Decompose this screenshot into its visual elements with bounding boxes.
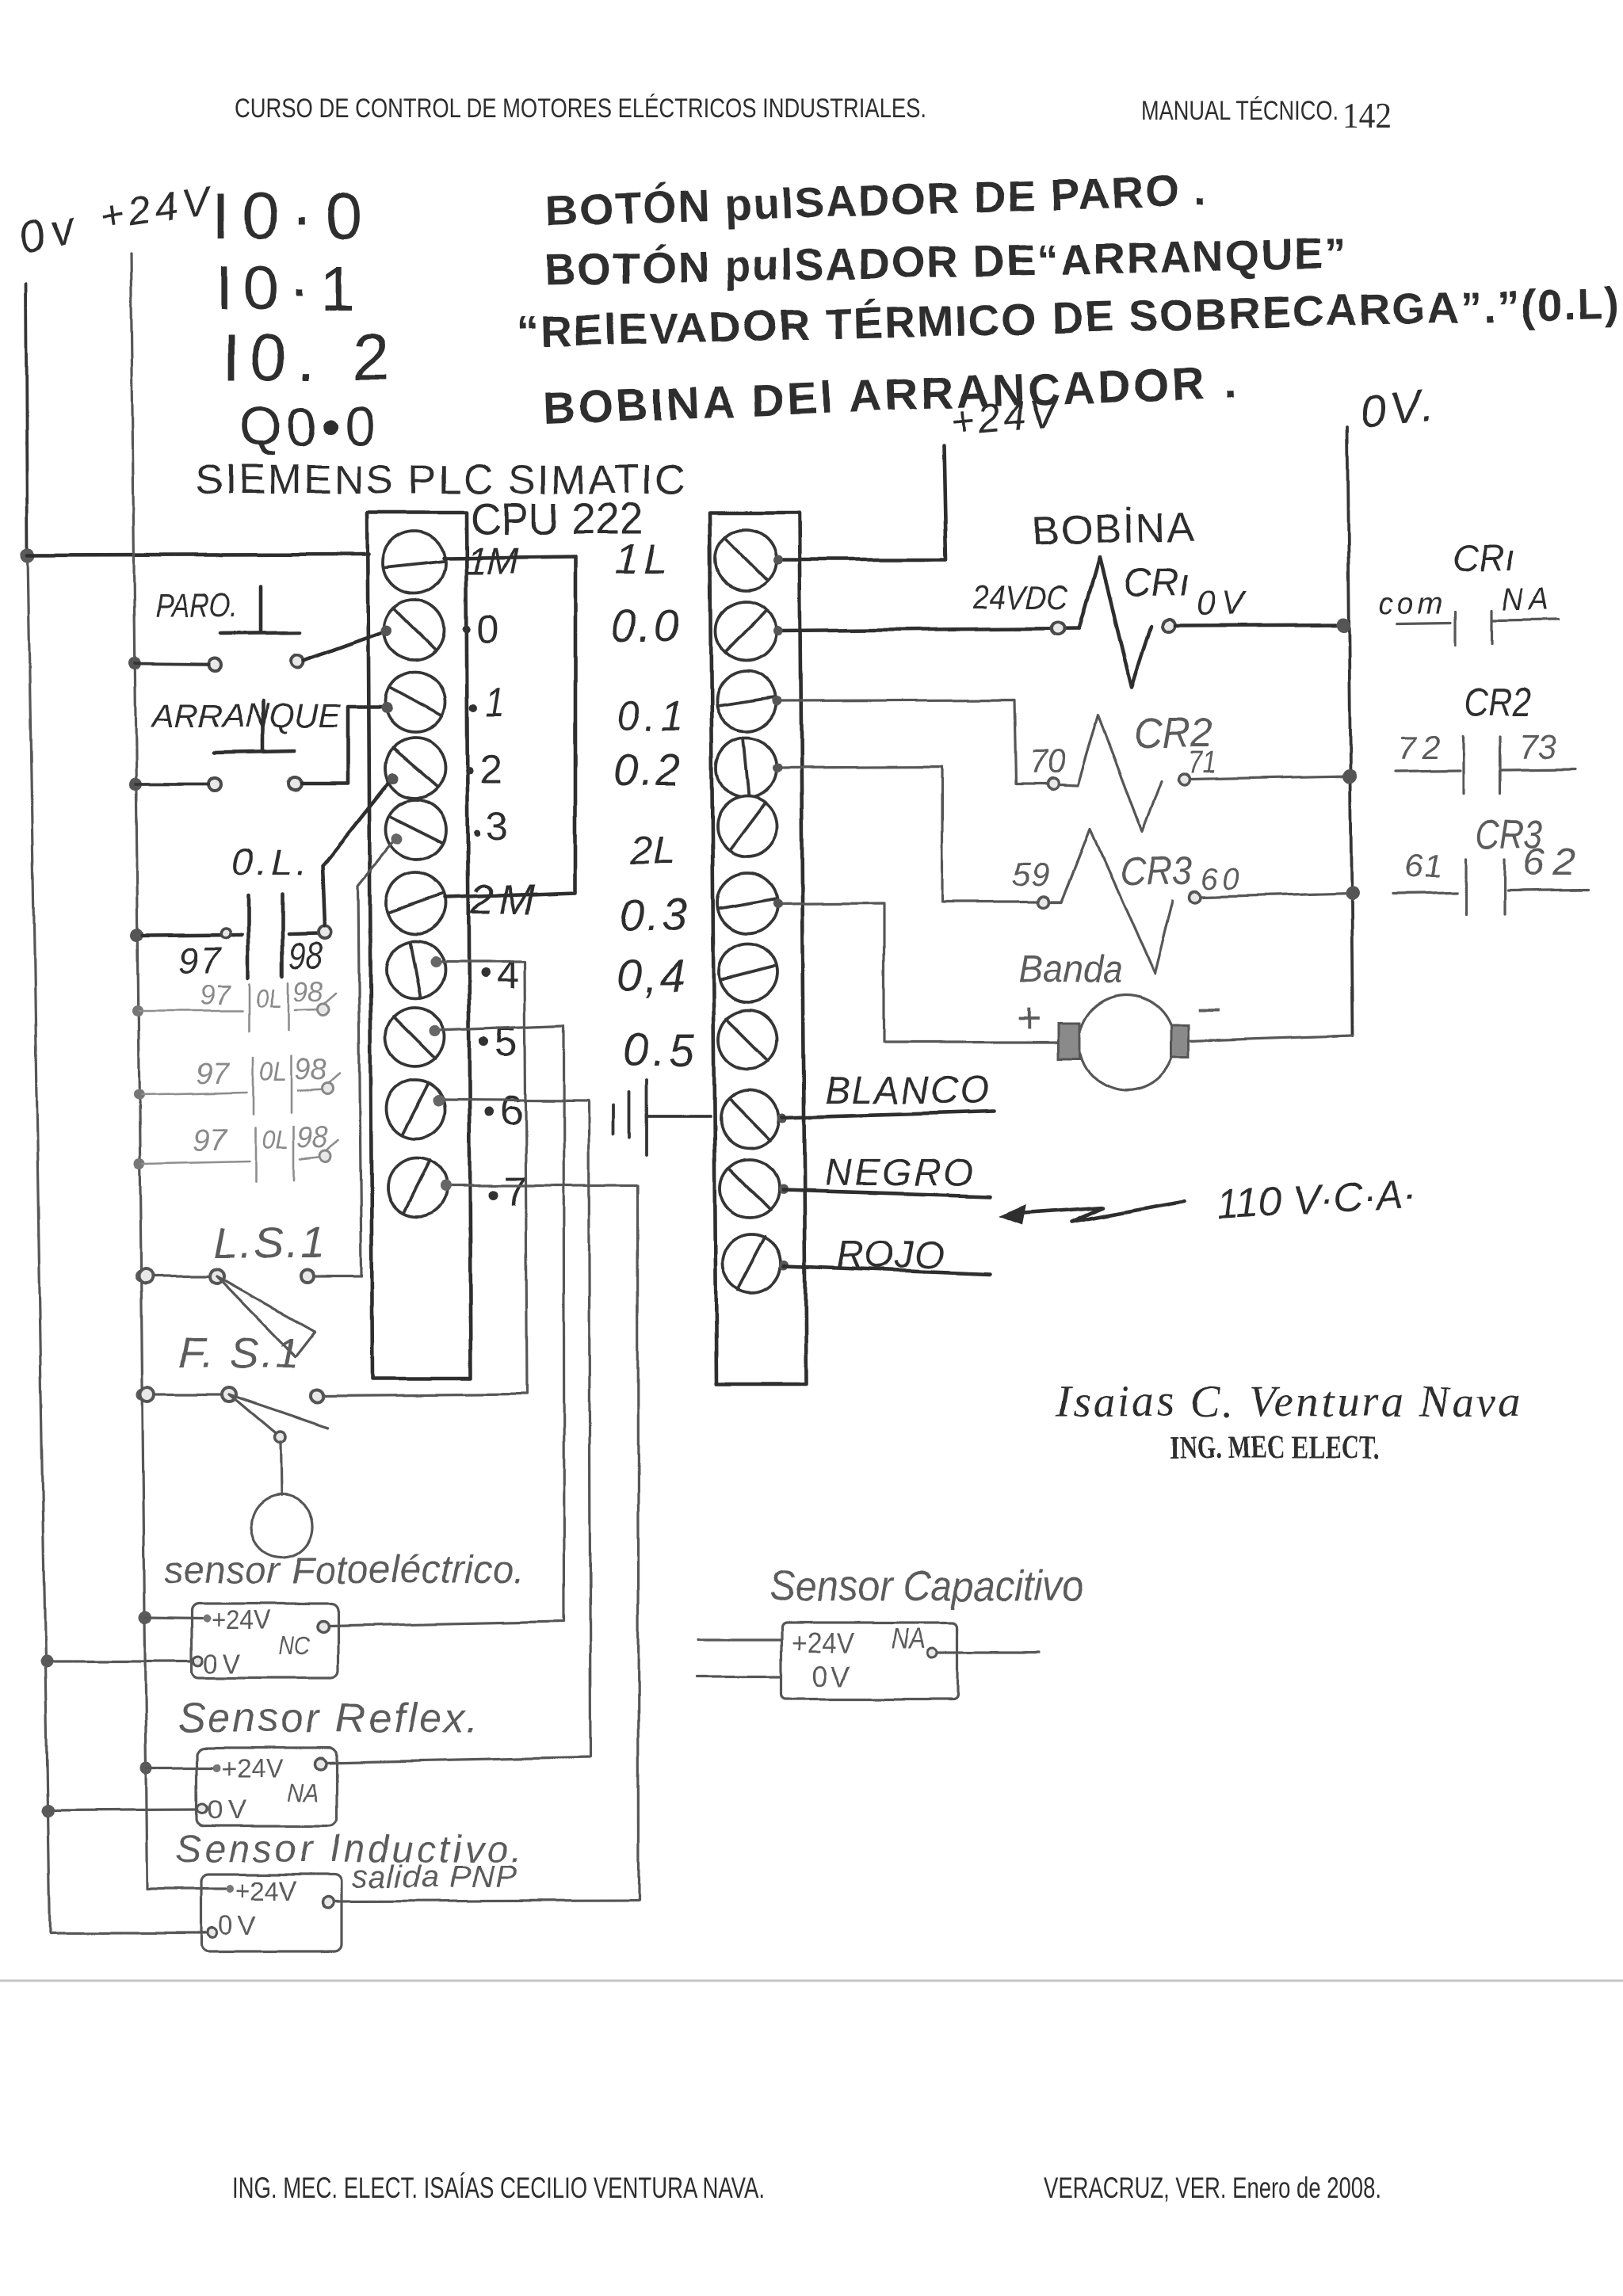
wire inductivo PNP up to I0.7 [334, 1186, 639, 1901]
common bar symbol (left of blanco) [613, 1080, 710, 1155]
svg-text:NA: NA [287, 1779, 319, 1807]
svg-text:3: 3 [486, 804, 508, 849]
svg-text:2L: 2L [630, 828, 675, 872]
svg-text:0.1: 0.1 [617, 694, 683, 740]
svg-text:CRı: CRı [1452, 537, 1515, 578]
svg-text:L.S.1: L.S.1 [214, 1219, 325, 1268]
svg-text:+24V: +24V [211, 1605, 271, 1635]
wire FS1 to I0.4 [323, 962, 527, 1396]
svg-text:+24V: +24V [791, 1627, 854, 1659]
input screw I0.3 [386, 799, 446, 860]
pushbutton PARO symbol [220, 586, 300, 633]
svg-text:NC: NC [279, 1631, 310, 1660]
wire blanco + label BLANCO [777, 1113, 787, 1123]
wire LS1 to I0.3 [314, 841, 394, 1276]
PLC output terminal strip (right) box [710, 513, 806, 1384]
svg-text:2: 2 [479, 746, 502, 792]
svg-text:97: 97 [200, 978, 233, 1011]
capacitivo lead +24V [697, 1638, 781, 1641]
svg-text:7: 7 [504, 1169, 527, 1215]
output screw 1L [716, 529, 776, 589]
wire 0V to terminal 1M [28, 555, 369, 555]
svg-text:4: 4 [496, 952, 519, 998]
capacitivo lead 0V [697, 1676, 781, 1678]
input screw I0.5 [386, 1008, 445, 1066]
aux contact CR3 [1392, 859, 1588, 915]
wire 0V to reflex box [48, 1810, 198, 1810]
sensor reflex box [197, 1748, 336, 1826]
pin label .1 [469, 704, 477, 711]
pin label .0 [463, 624, 471, 632]
sensor fotoelectrico box [191, 1604, 338, 1678]
relay coil CR2 [776, 700, 1046, 784]
pin label .3 [474, 830, 480, 837]
svg-text:71: 71 [1188, 747, 1216, 780]
input screw I0.0 [384, 600, 445, 660]
svg-text:2M: 2M [469, 876, 535, 924]
sensor inductivo box [201, 1875, 342, 1951]
sensor capacitivo box [781, 1623, 957, 1699]
wire OL1 to I0.2 [323, 780, 391, 926]
svg-text:97: 97 [196, 1058, 231, 1091]
wire foto NC up to I0.5 [328, 1025, 564, 1626]
output screw blanco [720, 1089, 779, 1148]
output screw Q0.2 [716, 738, 777, 798]
wire 0V rail end to inductivo box [50, 1932, 208, 1934]
wire +24V to reflex box [147, 1766, 212, 1768]
output screw Q0.4 [719, 944, 777, 1002]
output screw Q0.1 [716, 671, 777, 731]
input screw 1M [384, 532, 445, 593]
pin label .4 [480, 968, 490, 978]
wire Q0.3 to motor + [776, 902, 1060, 1043]
svg-text:+: + [1016, 995, 1041, 1043]
aux contact CR2 [1395, 737, 1575, 794]
svg-text:61: 61 [1404, 848, 1442, 885]
svg-text:98: 98 [295, 1053, 327, 1086]
svg-text:NEGRO: NEGRO [825, 1152, 974, 1194]
output screw 2L [717, 796, 777, 856]
svg-text:98: 98 [289, 935, 323, 976]
overload contact OL3 [141, 1056, 340, 1114]
float switch FS1 [140, 1387, 155, 1402]
svg-text:−: − [1197, 986, 1222, 1033]
wire rojo + label ROJO [780, 1261, 789, 1270]
input screw 2M [386, 873, 446, 933]
input screw I0.4 [386, 940, 445, 999]
svg-text:Sensor Capacitivo: Sensor Capacitivo [769, 1562, 1083, 1610]
svg-text:142: 142 [1342, 95, 1392, 135]
svg-text:98: 98 [293, 975, 323, 1008]
svg-text:0: 0 [477, 606, 499, 650]
svg-text:ROJO: ROJO [836, 1234, 944, 1276]
wire +24V to foto box [145, 1618, 201, 1619]
pin label .2 [465, 767, 473, 775]
svg-text:0,4: 0,4 [617, 952, 685, 1002]
svg-text:CR3: CR3 [1120, 849, 1193, 893]
wire motor - to 0V rail [1189, 1035, 1353, 1041]
svg-text:BOBİNA: BOBİNA [1031, 505, 1196, 555]
svg-text:0L: 0L [262, 1125, 288, 1155]
svg-text:Banda: Banda [1019, 947, 1122, 991]
svg-text:70: 70 [1029, 743, 1066, 780]
wire 0V to foto box [47, 1660, 193, 1662]
svg-text:0.5: 0.5 [623, 1024, 695, 1076]
svg-text:0L: 0L [257, 984, 282, 1014]
photo sensor lamp [281, 1442, 281, 1496]
overload contact OL2 [139, 982, 336, 1032]
svg-text:0.0: 0.0 [611, 601, 679, 652]
wire +24V to PARO [135, 663, 208, 664]
overload contact OL4 [143, 1126, 338, 1182]
svg-text:+24V: +24V [222, 1754, 282, 1784]
scan edge line [0, 1980, 1623, 1982]
svg-text:73: 73 [1519, 727, 1556, 765]
svg-text:PARO.: PARO. [155, 586, 238, 624]
svg-text:0V: 0V [812, 1660, 850, 1692]
svg-text:59: 59 [1012, 856, 1050, 893]
overload contact OL1 (97-98) [143, 895, 320, 978]
input screw I0.2 [385, 738, 445, 798]
input screw I0.1 [385, 672, 445, 732]
wire reflex NA up to I0.6 [326, 1099, 590, 1763]
1M-2M common bracket [444, 556, 575, 898]
svg-text:0.3: 0.3 [619, 890, 687, 940]
svg-text:CRı: CRı [1124, 560, 1189, 605]
svg-text:MANUAL TÉCNICO.: MANUAL TÉCNICO. [1141, 96, 1338, 126]
svg-text:+24V: +24V [949, 390, 1061, 444]
output screw negro [720, 1159, 779, 1218]
arrow to wires [1013, 1201, 1184, 1222]
output screw Q0.0 [716, 601, 776, 661]
svg-text:24VDC: 24VDC [972, 578, 1068, 616]
svg-text:NA: NA [1502, 582, 1556, 617]
svg-text:sensor Fotoeléctrico.: sensor Fotoeléctrico. [164, 1550, 525, 1592]
svg-text:+24V: +24V [236, 1876, 296, 1906]
relay coil CR3 [776, 767, 1038, 902]
svg-text:97: 97 [193, 1124, 228, 1158]
svg-text:VERACRUZ, VER. Enero de 2008.: VERACRUZ, VER. Enero de 2008. [1044, 2172, 1381, 2204]
svg-text:97: 97 [178, 940, 222, 981]
capacitivo lead NA [937, 1651, 1039, 1653]
rail 0V (right vertical) [1347, 427, 1353, 1035]
motor M (Banda) [1079, 995, 1174, 1090]
limit switch LS1 [139, 1269, 153, 1283]
svg-text:CURSO DE CONTROL DE MOTORES EL: CURSO DE CONTROL DE MOTORES ELÉCTRICOS I… [235, 93, 926, 124]
junction dots on 0V rail lower [40, 1655, 53, 1668]
svg-text:CR2: CR2 [1465, 681, 1531, 725]
output screw Q0.5 [719, 1010, 777, 1069]
junction dots on +24V rail [128, 657, 141, 669]
aux contact CR1 [1397, 610, 1560, 645]
svg-text:salida PNP: salida PNP [352, 1859, 517, 1894]
svg-text:NA: NA [891, 1622, 926, 1654]
wire 1L to +24V [776, 445, 946, 559]
svg-text:0L: 0L [260, 1057, 287, 1087]
svg-text:0V.: 0V. [1358, 379, 1435, 438]
svg-text:com: com [1378, 587, 1443, 620]
pushbutton ARRANQUE symbol [215, 702, 295, 753]
svg-text:ING. MEC. ELECT. ISAÍAS CECILI: ING. MEC. ELECT. ISAÍAS CECILIO VENTURA … [232, 2172, 765, 2204]
wire +24V to ARRANQUE [136, 783, 208, 786]
pin label .7 [488, 1191, 498, 1200]
input screw I0.6 [387, 1080, 445, 1138]
svg-text:0.2: 0.2 [613, 745, 681, 795]
rail 0V (left vertical) [26, 284, 28, 555]
svg-text:Isaias C. Ventura Nava: Isaias C. Ventura Nava [1055, 1378, 1520, 1427]
wire negro + label NEGRO [778, 1184, 788, 1194]
pin label .5 [479, 1036, 488, 1046]
svg-text:BLANCO: BLANCO [824, 1070, 989, 1112]
wire PARO to I0.0 [304, 631, 385, 661]
svg-text:98: 98 [296, 1121, 328, 1154]
output screw Q0.3 [717, 873, 777, 933]
junction 0V/1M wire [21, 548, 35, 563]
svg-text:1: 1 [485, 680, 504, 726]
svg-text:0V: 0V [1195, 584, 1247, 623]
svg-text:Q0•0: Q0•0 [239, 396, 376, 457]
svg-text:ING. MEC ELECT.: ING. MEC ELECT. [1169, 1429, 1380, 1465]
svg-text:F. S.1: F. S.1 [178, 1329, 299, 1377]
rail +24V (left vertical) [131, 254, 147, 1889]
svg-text:5: 5 [495, 1019, 517, 1065]
wire ARRANQUE to I0.1 [301, 707, 385, 784]
pin label .6 [484, 1106, 494, 1116]
wire +24V rail end to inductivo box [147, 1887, 226, 1890]
svg-text:ARRANQUE: ARRANQUE [150, 697, 342, 734]
svg-text:1M: 1M [466, 540, 518, 582]
PLC input terminal strip (left) box [368, 513, 471, 1379]
relay coil CR1 [776, 628, 1079, 631]
svg-text:6: 6 [500, 1087, 523, 1133]
input screw I0.7 [388, 1158, 446, 1216]
output screw rojo [723, 1234, 781, 1293]
svg-text:Sensor Reflex.: Sensor Reflex. [178, 1695, 479, 1741]
